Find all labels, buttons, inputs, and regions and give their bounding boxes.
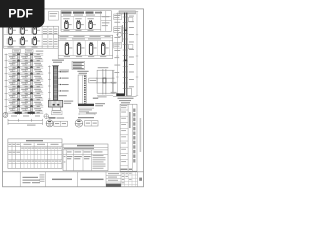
right margin faint vertical text — [140, 118, 142, 152]
panel A subtitle row — [63, 14, 71, 17]
panel A right sub-table — [100, 11, 102, 32]
tall elevation vertical text — [122, 25, 123, 42]
panel C section row2 col3 — [33, 37, 34, 38]
tall elevation top slab — [119, 11, 136, 14]
middle table outer — [63, 144, 108, 171]
section bubble 1 — [46, 120, 53, 127]
plan beam line 5 — [8, 79, 43, 81]
title block dark cell — [106, 184, 121, 187]
scale box 2 — [85, 121, 99, 126]
TYP label — [93, 98, 98, 99]
tall elevation bottom notes — [118, 98, 134, 99]
boxed label above bubble 1 — [52, 111, 63, 115]
column detail 2 body — [78, 75, 86, 104]
tall elevation left dim line — [116, 13, 118, 96]
strip vertical text streak — [133, 109, 135, 112]
title block divider 5 — [137, 172, 139, 187]
middle table body texts — [64, 155, 66, 158]
panel C section row1 col2 — [21, 27, 25, 34]
tall elevation stirrup ticks — [123, 17, 128, 89]
vertical schedule strip — [120, 104, 137, 171]
panel B column section 4 — [102, 42, 103, 43]
schedule table main dividers — [11, 143, 13, 169]
title block divider 2 — [45, 172, 47, 187]
plan bay labels 2 — [9, 62, 15, 65]
page border frame — [3, 9, 144, 187]
rebar callout y78.2 — [58, 77, 60, 79]
small note box beside PDF badge — [49, 12, 59, 21]
plan beam line 8 — [8, 98, 43, 100]
plan beam line 3 — [8, 66, 43, 68]
panel A column section 3 — [89, 20, 90, 21]
panel C section row2 col1 — [9, 37, 10, 38]
title block sheet title text — [81, 179, 104, 180]
footing plan top text — [98, 67, 109, 68]
footing plan bottom dim — [97, 94, 113, 96]
rebar callout y84.6 — [58, 84, 60, 86]
panel C section row1 col3 — [33, 27, 37, 34]
plan bay labels 3 — [9, 68, 15, 71]
tall elevation left label box 3 — [114, 43, 122, 49]
panel C: top-left column details table — [4, 26, 59, 48]
footing plan center column — [103, 78, 106, 83]
plan beam line 6 — [8, 85, 43, 87]
title block firm texts — [23, 177, 39, 178]
panel B column section 3 — [90, 42, 91, 43]
plan column line 1 — [16, 52, 18, 114]
schedule table header texts — [24, 144, 32, 145]
rebar callout y71.8 — [58, 71, 60, 73]
panel C bottom text row — [8, 46, 14, 49]
tall elevation dark column bars — [124, 13, 125, 96]
crossed circle marker — [44, 114, 49, 119]
page background — [0, 0, 149, 198]
middle table subtitle row — [63, 149, 108, 151]
tall elevation right small box 1 — [128, 18, 133, 22]
panel A column section 2 — [77, 20, 78, 21]
panel C section row1 col1 — [9, 27, 13, 34]
tall elevation right bottom box — [127, 88, 131, 96]
schedule table data row marks — [21, 160, 24, 163]
panel A title bar — [62, 12, 72, 14]
title block grid divider — [120, 172, 122, 187]
footing plan left stub — [89, 78, 97, 83]
tall elevation right small box 2 — [128, 45, 133, 49]
middle table header row — [63, 153, 108, 155]
title block stacked text — [40, 174, 45, 177]
strip header marks — [121, 104, 127, 107]
framing plan: top grid labels — [13, 49, 21, 52]
title block revision rows — [108, 172, 119, 175]
tall elevation L foot — [116, 93, 124, 96]
dense stamp text block — [72, 61, 85, 69]
plan beam line 4 — [8, 72, 43, 74]
column elevation footing — [48, 100, 62, 107]
column detail 2 title — [77, 71, 88, 72]
tall elevation left label box 2 — [114, 27, 122, 33]
schedule table subheader marks — [21, 147, 24, 150]
tall elevation right labels — [129, 15, 134, 18]
tall elevation left circled mark — [118, 33, 122, 37]
panel A column section 1 — [65, 20, 66, 21]
plan beam line 2 — [8, 59, 43, 61]
column elevation title text — [52, 60, 64, 61]
plan bay labels 4 — [9, 75, 15, 78]
title block grid marks — [122, 172, 124, 175]
title block logo cell divider — [19, 172, 21, 187]
svg-text:PDF: PDF — [8, 7, 33, 21]
tall elevation left label box 1 — [114, 14, 122, 20]
small gray note under footing plan — [86, 113, 97, 114]
plan beam line 1 — [8, 53, 43, 55]
plan beam line 7 — [8, 92, 43, 94]
title block sheet number — [139, 178, 142, 181]
grid bubble 3 — [3, 112, 8, 117]
strip row marks — [121, 111, 126, 114]
schedule table outer — [8, 139, 62, 169]
plan bay labels 7 — [9, 94, 15, 97]
plan left dimension line — [5, 54, 7, 115]
plan bay labels 6 — [9, 88, 15, 91]
plan bay labels 1 — [9, 55, 15, 58]
schedule table header band — [8, 146, 62, 148]
section bubble 2 — [75, 120, 83, 128]
plan bottom labels — [11, 115, 17, 118]
tall elevation ground line — [113, 95, 137, 97]
footing pad — [52, 107, 60, 110]
schedule table title row — [8, 142, 62, 144]
panel A: top-center column details table — [61, 11, 111, 32]
tall elevation extra left texts — [114, 21, 120, 24]
panel A bottom row — [61, 28, 101, 30]
plan beam line 9 — [8, 105, 43, 107]
strip bottom labels — [121, 168, 128, 171]
title block divider 3 — [77, 172, 79, 187]
column elevation hatched bar — [53, 66, 57, 101]
panel B column section 2 — [78, 42, 79, 43]
footing plan outer — [97, 70, 112, 93]
middle table column dividers — [65, 150, 67, 171]
panel A cell dividers — [72, 16, 74, 29]
rebar callout y91.0 — [58, 90, 60, 92]
plan beam line 10 — [8, 111, 43, 113]
panel B: wide column details table — [58, 35, 112, 58]
tall elevation joint marks — [124, 30, 127, 31]
scale cells 1 — [54, 121, 68, 126]
panel C right text columns — [41, 26, 43, 48]
tall elevation left callouts — [112, 83, 117, 85]
footing plan cross horizontal — [96, 77, 114, 79]
plan bay labels 8 — [9, 101, 15, 104]
footing plan right dim — [113, 70, 115, 93]
plan column line 2 — [29, 52, 31, 114]
plan bay labels 9 — [9, 107, 15, 110]
footing plan cross vertical — [102, 69, 104, 94]
plan bottom dimension line 2 — [8, 123, 43, 125]
PDF badge — [0, 0, 45, 28]
panel C section row2 col2 — [21, 37, 22, 38]
title block divider 4 — [105, 172, 107, 187]
middle table title bar — [63, 146, 108, 148]
column elevation left dim — [48, 66, 50, 101]
plan bay labels 5 — [9, 81, 15, 84]
middle table notes lines — [93, 154, 104, 157]
dark note text — [49, 117, 56, 118]
schedule table sub dividers — [23, 147, 25, 169]
tall elevation right dim line — [136, 11, 138, 96]
title block project text — [52, 179, 72, 180]
schedule table row marks — [9, 151, 12, 154]
plan bottom dimension line 1 — [8, 119, 43, 121]
column detail 2 footing bar — [78, 104, 94, 106]
title block top line — [3, 171, 144, 173]
panel B column section 1 — [66, 42, 67, 43]
detail label above bubble 2 — [78, 117, 94, 118]
plan bottom beam heavy marks — [15, 112, 22, 114]
